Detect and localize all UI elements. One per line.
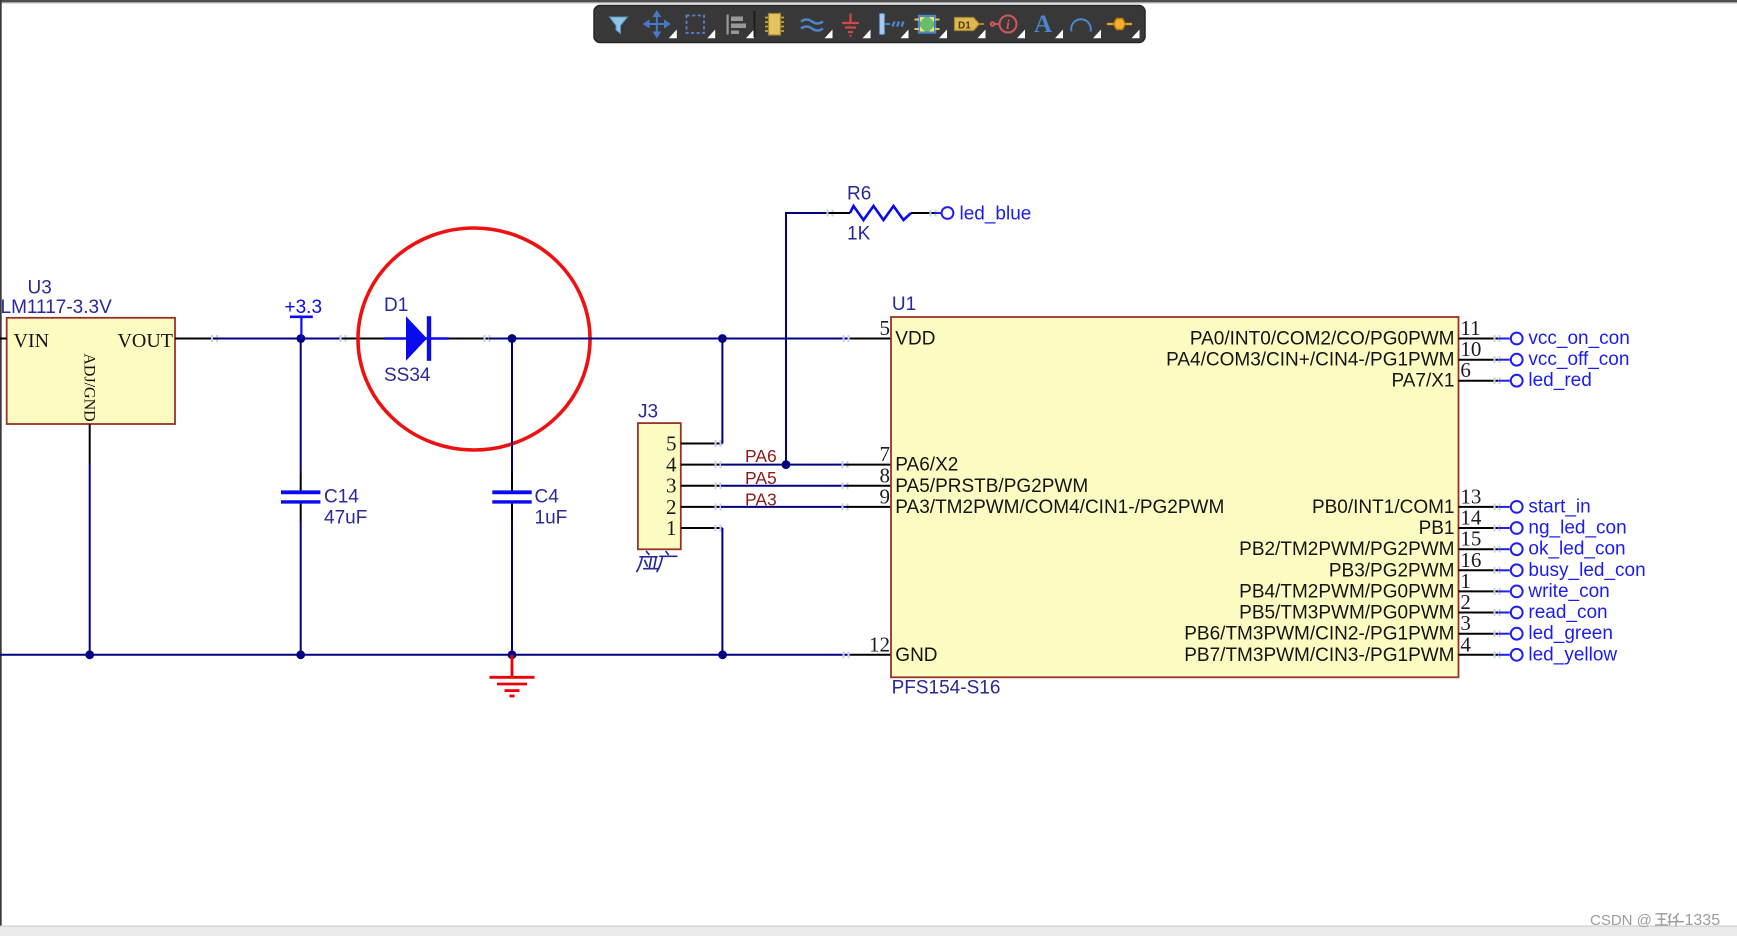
svg-text:C4: C4 bbox=[535, 487, 560, 508]
svg-text:5: 5 bbox=[880, 316, 891, 340]
toolbar icon: IC symbol bbox=[765, 14, 784, 36]
svg-text:12: 12 bbox=[869, 632, 890, 656]
svg-text:D1: D1 bbox=[384, 295, 408, 316]
net port read_con bbox=[1499, 612, 1510, 614]
bottom scroll strip bbox=[0, 926, 1737, 936]
net port vcc_off_con bbox=[1499, 359, 1510, 361]
svg-text:PA0/INT0/COM2/CO/PG0PWM: PA0/INT0/COM2/CO/PG0PWM bbox=[1190, 329, 1455, 350]
wire J3 pin5 up to VDD net bbox=[721, 339, 723, 444]
wire R6 right lead (black) bbox=[911, 212, 935, 214]
U1 pin 13 stub bbox=[1459, 506, 1500, 508]
wire J3 pin1 down to ground rail bbox=[721, 528, 723, 655]
net port start_in bbox=[1499, 506, 1510, 508]
node C4 junction bbox=[508, 334, 517, 343]
toolbar icon: wire wavy bbox=[825, 30, 833, 39]
svg-text:1K: 1K bbox=[847, 224, 871, 245]
svg-text:PB0/INT1/COM1: PB0/INT1/COM1 bbox=[1312, 497, 1455, 518]
node C14 ground junction bbox=[296, 650, 305, 659]
window top border bbox=[0, 0, 1737, 2]
U1 pin 2 stub bbox=[1459, 612, 1500, 614]
svg-text:D1: D1 bbox=[958, 21, 971, 32]
node PA6 junction bbox=[782, 460, 791, 469]
net port write_con bbox=[1499, 590, 1510, 592]
net port led_yellow bbox=[1499, 654, 1510, 656]
toolbar bbox=[594, 6, 1145, 43]
wire C4 down to ground rail bbox=[511, 504, 513, 521]
svg-text:vcc_off_con: vcc_off_con bbox=[1528, 349, 1629, 370]
svg-text:PB5/TM3PWM/PG0PWM: PB5/TM3PWM/PG0PWM bbox=[1239, 603, 1454, 624]
svg-text:PA6: PA6 bbox=[745, 446, 777, 466]
net port vcc_on_con bbox=[1499, 338, 1510, 340]
U1 pin 3 stub bbox=[1459, 633, 1500, 635]
svg-text:PA5: PA5 bbox=[745, 468, 777, 488]
net port led_blue bbox=[935, 212, 942, 214]
svg-text:LM1117-3.3V: LM1117-3.3V bbox=[1, 297, 113, 318]
U1 pin 6 stub bbox=[1459, 380, 1500, 382]
svg-text:PA5/PRSTB/PG2PWM: PA5/PRSTB/PG2PWM bbox=[895, 476, 1088, 497]
wire C14 down to ground rail bbox=[300, 504, 302, 521]
MCU U1 body bbox=[891, 317, 1459, 677]
net port busy_led_con bbox=[1499, 569, 1510, 571]
svg-text:GND: GND bbox=[895, 645, 937, 666]
J3 pin5 stub bbox=[681, 443, 723, 445]
wire PA5 net bbox=[721, 485, 846, 487]
node C4 ground junction bbox=[508, 650, 517, 659]
resistor R6 bbox=[850, 206, 911, 220]
svg-text:PB7/TM3PWM/CIN3-/PG1PWM: PB7/TM3PWM/CIN3-/PG1PWM bbox=[1184, 645, 1454, 666]
svg-text:1: 1 bbox=[666, 516, 677, 540]
svg-text:PB3/PG2PWM: PB3/PG2PWM bbox=[1329, 560, 1455, 581]
toolbar icon: info bbox=[1017, 30, 1025, 39]
svg-text:4: 4 bbox=[1460, 632, 1471, 656]
svg-text:led_yellow: led_yellow bbox=[1528, 644, 1617, 665]
svg-text:PB6/TM3PWM/CIN2-/PG1PWM: PB6/TM3PWM/CIN2-/PG1PWM bbox=[1184, 624, 1454, 645]
svg-text:PB2/TM2PWM/PG2PWM: PB2/TM2PWM/PG2PWM bbox=[1239, 539, 1454, 560]
net port ok_led_con bbox=[1499, 548, 1510, 550]
J3 pin3 stub bbox=[681, 485, 721, 487]
U1 pin 10 stub bbox=[1459, 359, 1500, 361]
capacitor C4 bbox=[492, 490, 531, 494]
svg-text:PA7/X1: PA7/X1 bbox=[1391, 371, 1454, 392]
capacitor C14 bbox=[281, 490, 320, 494]
svg-text:VOUT: VOUT bbox=[117, 330, 173, 352]
net port ng_led_con bbox=[1499, 527, 1510, 529]
svg-text:47uF: 47uF bbox=[324, 508, 367, 529]
svg-text:led_red: led_red bbox=[1528, 370, 1591, 391]
voltage regulator U3 body bbox=[7, 318, 175, 424]
svg-text:vcc_on_con: vcc_on_con bbox=[1528, 328, 1629, 349]
toolbar icon: bus bbox=[901, 30, 909, 39]
svg-text:led_green: led_green bbox=[1528, 623, 1613, 644]
net port led_green bbox=[1499, 633, 1510, 635]
svg-text:1335: 1335 bbox=[1685, 912, 1721, 929]
toolbar icon: crosshair bbox=[669, 30, 677, 39]
toolbar icon: D1 tag bbox=[978, 30, 986, 39]
window left border bbox=[0, 0, 2, 926]
svg-text:CSDN @: CSDN @ bbox=[1590, 912, 1652, 929]
J3 pin1 stub bbox=[681, 527, 723, 529]
svg-text:read_con: read_con bbox=[1528, 602, 1607, 623]
svg-text:led_blue: led_blue bbox=[960, 204, 1032, 225]
wire to U1 VDD bbox=[489, 338, 850, 340]
svg-text:start_in: start_in bbox=[1528, 496, 1590, 517]
toolbar icon: select rect bbox=[707, 30, 715, 39]
svg-text:PB1: PB1 bbox=[1419, 518, 1455, 539]
wire after diode (black) bbox=[449, 338, 489, 340]
toolbar icon: align bbox=[746, 30, 754, 39]
wire U1 VDD pin stub bbox=[843, 335, 850, 342]
svg-text:ok_led_con: ok_led_con bbox=[1528, 539, 1625, 560]
toolbar icon: text A bbox=[1055, 30, 1063, 39]
wire from VDD net down to C4 bbox=[511, 339, 513, 474]
wire U1 GND pin stub bbox=[843, 651, 850, 658]
toolbar icon: filter bbox=[610, 17, 628, 34]
svg-text:9: 9 bbox=[880, 484, 891, 508]
svg-text:1uF: 1uF bbox=[535, 508, 568, 529]
svg-text:U1: U1 bbox=[892, 294, 916, 315]
wire R6 left lead (black) bbox=[827, 210, 834, 217]
ground rail wire bbox=[0, 654, 850, 656]
svg-text:PB4/TM2PWM/PG0PWM: PB4/TM2PWM/PG0PWM bbox=[1239, 581, 1454, 602]
wire PA3 net bbox=[721, 506, 846, 508]
wire VIN pin stub to left edge bbox=[0, 338, 7, 340]
svg-text:6: 6 bbox=[1460, 358, 1471, 382]
node J3 pin5 junction bbox=[718, 334, 727, 343]
svg-text:PA4/COM3/CIN+/CIN4-/PG1PWM: PA4/COM3/CIN+/CIN4-/PG1PWM bbox=[1166, 350, 1454, 371]
wire PA6 net bbox=[721, 464, 846, 466]
svg-text:R6: R6 bbox=[847, 184, 871, 205]
node +3.3 junction bbox=[297, 334, 306, 343]
svg-text:PA6/X2: PA6/X2 bbox=[895, 455, 958, 476]
svg-text:A: A bbox=[1034, 11, 1052, 38]
net port led_red bbox=[1499, 380, 1510, 382]
toolbar icon: netlist IC bbox=[939, 30, 947, 39]
U1 pin 1 stub bbox=[1459, 590, 1500, 592]
toolbar separator bbox=[754, 11, 756, 37]
svg-text:VDD: VDD bbox=[895, 329, 935, 350]
wire +3.3 down to C14 bbox=[300, 339, 302, 474]
wire ADJ/GND down to ground rail bbox=[89, 464, 91, 655]
wire U1 pin7 stub bbox=[842, 461, 849, 468]
J3 value label (Chinese) bbox=[637, 552, 677, 572]
U1 pin 4 stub bbox=[1459, 654, 1500, 656]
toolbar icon: node bbox=[1132, 30, 1140, 39]
svg-text:PA3/TM2PWM/COM4/CIN1-/PG2PWM: PA3/TM2PWM/COM4/CIN1-/PG2PWM bbox=[895, 497, 1224, 518]
node ADJ ground junction bbox=[85, 650, 94, 659]
connector J3 body bbox=[638, 423, 681, 549]
diode D1 bbox=[385, 316, 450, 361]
wire VOUT to +3.3 junction and on to D1 bbox=[216, 338, 342, 340]
svg-text:J3: J3 bbox=[638, 402, 658, 423]
svg-text:SS34: SS34 bbox=[384, 365, 431, 386]
wire segment before diode (black) bbox=[340, 335, 347, 342]
watermark Chinese name strokes bbox=[1655, 913, 1684, 927]
J3 pin4 stub bbox=[681, 464, 721, 466]
ground symbol bbox=[490, 655, 535, 696]
svg-text:PA3: PA3 bbox=[745, 489, 777, 509]
wire VOUT pin stub bbox=[175, 338, 216, 340]
svg-text:busy_led_con: busy_led_con bbox=[1528, 560, 1645, 581]
svg-text:C14: C14 bbox=[324, 487, 359, 508]
U1 pin 15 stub bbox=[1459, 548, 1500, 550]
J3 pin2 stub bbox=[681, 506, 721, 508]
wire U1 pin9 stub bbox=[842, 503, 849, 510]
wire R6 left + vertical down to PA6 net bbox=[786, 213, 828, 465]
wire U1 pin8 stub bbox=[842, 482, 849, 489]
svg-text:ADJ/GND: ADJ/GND bbox=[81, 353, 98, 421]
toolbar icon: ground bbox=[863, 30, 871, 39]
svg-text:ng_led_con: ng_led_con bbox=[1528, 518, 1626, 539]
red highlight circle bbox=[358, 228, 590, 450]
svg-text:i: i bbox=[1006, 18, 1010, 33]
svg-text:write_con: write_con bbox=[1527, 581, 1609, 602]
svg-text:PFS154-S16: PFS154-S16 bbox=[892, 678, 1001, 699]
node J3 pin1 ground junction bbox=[718, 650, 727, 659]
svg-text:+3.3: +3.3 bbox=[285, 297, 323, 318]
svg-text:U3: U3 bbox=[28, 278, 52, 299]
U1 pin 11 stub bbox=[1459, 338, 1500, 340]
svg-text:VIN: VIN bbox=[14, 330, 50, 352]
U1 pin 14 stub bbox=[1459, 527, 1500, 529]
toolbar icon: arc bbox=[1093, 30, 1101, 39]
wire ADJ/GND pin stub bbox=[89, 424, 91, 464]
U1 pin 16 stub bbox=[1459, 569, 1500, 571]
